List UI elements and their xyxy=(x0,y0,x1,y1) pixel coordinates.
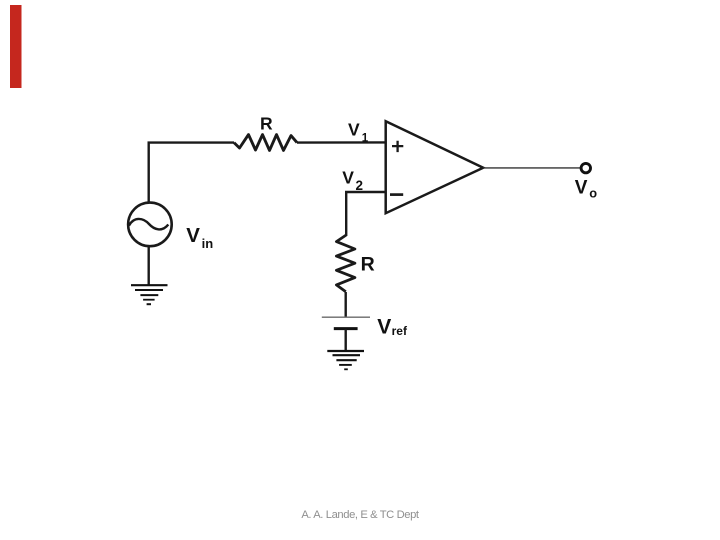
red accent bar (slide template) xyxy=(10,5,22,88)
svg-text:V: V xyxy=(342,168,354,188)
battery Vref: long thin plate xyxy=(322,316,370,318)
sine wave inside source xyxy=(129,219,168,229)
svg-text:o: o xyxy=(589,186,597,201)
wire: resistor R2 bottom to battery xyxy=(345,292,347,317)
svg-text:V: V xyxy=(348,119,360,139)
svg-text:R: R xyxy=(361,253,375,275)
wire: resistor R1 right to op-amp + input xyxy=(297,141,386,144)
resistor R2 (vertical zigzag) xyxy=(336,235,355,292)
svg-text:2: 2 xyxy=(356,178,364,193)
footer credit text xyxy=(0,510,720,521)
AC source Vin circle xyxy=(128,203,172,247)
ground (below source) xyxy=(131,284,168,286)
ground (below battery) xyxy=(327,350,364,352)
svg-text:V: V xyxy=(575,178,588,199)
svg-text:1: 1 xyxy=(362,132,369,144)
svg-text:ref: ref xyxy=(392,324,408,338)
resistor R1 (horizontal zigzag) xyxy=(234,135,297,151)
wire: battery to ground xyxy=(345,329,347,350)
svg-text:V: V xyxy=(377,316,391,339)
battery Vref: short thick plate xyxy=(334,327,358,330)
wire: source top to resistor R1 left xyxy=(149,143,234,202)
svg-text:R: R xyxy=(260,114,273,134)
wire: op-amp - input left then down to resistor R2 xyxy=(346,192,386,236)
op-amp U1 triangle xyxy=(386,121,484,213)
output terminal circle xyxy=(581,163,590,172)
op-amp plus marking xyxy=(392,141,403,152)
svg-text:V: V xyxy=(186,224,200,247)
wire: source bottom to ground xyxy=(147,246,149,284)
wire: op-amp output to terminal xyxy=(483,167,580,169)
svg-text:in: in xyxy=(202,236,214,251)
op-amp minus marking xyxy=(390,193,403,196)
